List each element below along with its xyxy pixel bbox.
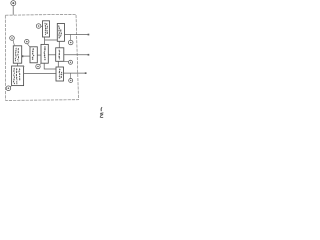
ref numeral circle 7 (below bottom output wire)	[70, 73, 72, 78]
output end dot right middle	[88, 54, 90, 56]
block A	[13, 46, 21, 63]
wire A to C	[22, 55, 30, 57]
output wire T2 right	[65, 34, 89, 36]
wire terminal stem	[12, 6, 14, 15]
block E	[56, 48, 64, 62]
dashed enclosure border (unit outline)	[5, 14, 78, 100]
block C	[30, 47, 37, 63]
wire T1 down to D	[44, 37, 46, 44]
wire A down to B	[17, 63, 19, 66]
block B (bottom left tall)	[12, 66, 24, 86]
junction dot on wire A-C	[21, 55, 23, 57]
wire D bottom L to F	[44, 63, 56, 69]
output end dot right top	[88, 34, 90, 36]
block T2 (top row right)	[57, 24, 64, 42]
block F (bottom middle)	[56, 67, 64, 81]
output wire E right	[64, 54, 89, 56]
oscillator block T1 (top row left)	[43, 21, 50, 37]
wire E down to F	[57, 61, 59, 67]
ref numeral circle 9 (below block B)	[10, 86, 12, 87]
wire D to E	[48, 54, 55, 56]
output wire F right	[64, 72, 86, 74]
input terminal circle	[11, 1, 16, 6]
block D	[41, 44, 48, 63]
ref numeral circle 8 (below block D)	[40, 63, 42, 65]
wire B to F	[24, 73, 56, 75]
ref numeral circle 2 (points to block A)	[10, 36, 15, 41]
wire T1 stem to T2	[45, 39, 58, 41]
ref numeral circle 5 (below top output wire)	[70, 35, 72, 41]
figure number label (rotated digits bottom right)	[100, 107, 103, 111]
output end dot right bottom	[85, 72, 87, 74]
ref numeral circle 6 (right of block E)	[64, 60, 69, 63]
ref numeral circle 4 (points to block T1)	[36, 24, 41, 29]
wire T2 down to E	[58, 41, 60, 48]
wire C to D	[37, 54, 41, 56]
ref numeral circle 3 (points to block C)	[25, 39, 29, 43]
